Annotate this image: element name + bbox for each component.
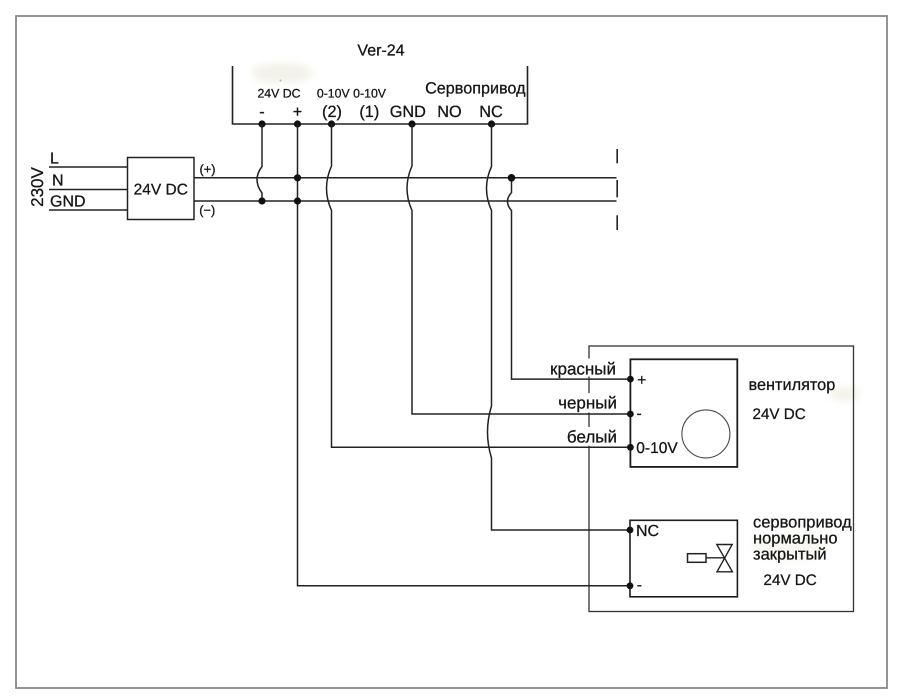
fan unit box bbox=[630, 359, 737, 467]
label красный background bbox=[548, 359, 617, 377]
junction on (-) bus bbox=[294, 197, 301, 204]
svg-text:-: - bbox=[637, 577, 642, 594]
svg-text:Ver-24: Ver-24 bbox=[357, 43, 404, 60]
wire (+) bus to fan plus (красный) with jump over (-) bus bbox=[508, 178, 632, 379]
terminal dot NC bbox=[488, 120, 495, 127]
valve stem bbox=[706, 557, 724, 559]
wire (+) bus bbox=[195, 177, 617, 179]
bus cut mark middle bbox=[616, 180, 618, 197]
svg-text:белый: белый bbox=[567, 428, 617, 447]
label черный background bbox=[556, 393, 618, 413]
svg-text:NC: NC bbox=[636, 523, 659, 540]
svg-text:NO: NO bbox=[437, 103, 461, 121]
terminal dot minus bbox=[258, 120, 265, 127]
bus cut mark top bbox=[616, 149, 618, 163]
svg-text:(+): (+) bbox=[200, 162, 216, 177]
fan terminal dot minus bbox=[627, 411, 634, 418]
enclosure box U1 (fan + servo unit) bbox=[589, 346, 854, 612]
svg-text:L: L bbox=[50, 151, 59, 168]
junction красный to (+) bus bbox=[508, 174, 516, 182]
servo terminal dot NC bbox=[627, 527, 634, 534]
svg-text:-: - bbox=[259, 103, 264, 121]
svg-text:черный: черный bbox=[558, 394, 617, 413]
valve body (hourglass) bbox=[717, 545, 733, 572]
wire GND to fan minus (черный) with jump over buses bbox=[407, 124, 631, 414]
terminal dot (2) bbox=[328, 120, 335, 127]
svg-text:GND: GND bbox=[50, 194, 86, 211]
terminal dot plus bbox=[294, 120, 301, 127]
svg-text:0-10V: 0-10V bbox=[353, 87, 387, 101]
svg-text:NC: NC bbox=[479, 103, 503, 121]
svg-text:N: N bbox=[52, 173, 64, 190]
svg-text:(2): (2) bbox=[322, 103, 342, 121]
wire (-) bus bbox=[195, 200, 617, 202]
fan terminal dot 0-10V bbox=[627, 444, 634, 451]
servo actuator box bbox=[630, 520, 737, 597]
svg-text:24V DC: 24V DC bbox=[764, 572, 817, 589]
wire NC to servo NC with jumps over buses and wires bbox=[487, 124, 632, 530]
svg-text:24V DC: 24V DC bbox=[134, 182, 188, 199]
svg-text:0-10V: 0-10V bbox=[636, 440, 678, 457]
fan circle bbox=[682, 410, 730, 458]
svg-text:230V: 230V bbox=[28, 166, 47, 206]
svg-text:красный: красный bbox=[550, 360, 616, 379]
wire plus terminal down to servo minus bbox=[298, 124, 632, 586]
svg-text:0-10V: 0-10V bbox=[317, 87, 351, 101]
svg-text:GND: GND bbox=[390, 103, 426, 121]
valve actuator body bbox=[688, 554, 707, 563]
svg-text:(−): (−) bbox=[199, 203, 215, 218]
svg-text:24V DC: 24V DC bbox=[753, 406, 806, 423]
terminal dot GND bbox=[408, 120, 415, 127]
power supply PSU 24V DC box bbox=[128, 158, 195, 220]
svg-text:+: + bbox=[293, 103, 303, 121]
wire N bbox=[49, 189, 128, 191]
svg-text:24V DC: 24V DC bbox=[257, 87, 300, 101]
wire (2) to fan 0-10V (белый) with jump over buses bbox=[327, 124, 632, 447]
wire L bbox=[49, 166, 128, 168]
bus cut mark bottom bbox=[616, 215, 618, 230]
fan terminal dot plus bbox=[627, 376, 634, 383]
servo terminal dot minus bbox=[627, 582, 634, 589]
svg-text:-: - bbox=[637, 406, 642, 423]
junction minus to (-) bus bbox=[258, 197, 265, 204]
svg-text:Сервопривод: Сервопривод bbox=[425, 80, 526, 98]
label белый background bbox=[564, 427, 618, 446]
junction plus to (+) bus bbox=[294, 174, 301, 181]
wire GND input bbox=[49, 209, 128, 211]
terminal block Ver-24 outline bbox=[233, 66, 528, 124]
svg-text:вентилятор: вентилятор bbox=[749, 376, 836, 394]
svg-text:(1): (1) bbox=[359, 103, 379, 121]
svg-text:+: + bbox=[637, 372, 646, 389]
svg-text:закрытый: закрытый bbox=[753, 546, 827, 564]
wire minus terminal to (-) bus with jump over (+) bus bbox=[257, 124, 262, 201]
